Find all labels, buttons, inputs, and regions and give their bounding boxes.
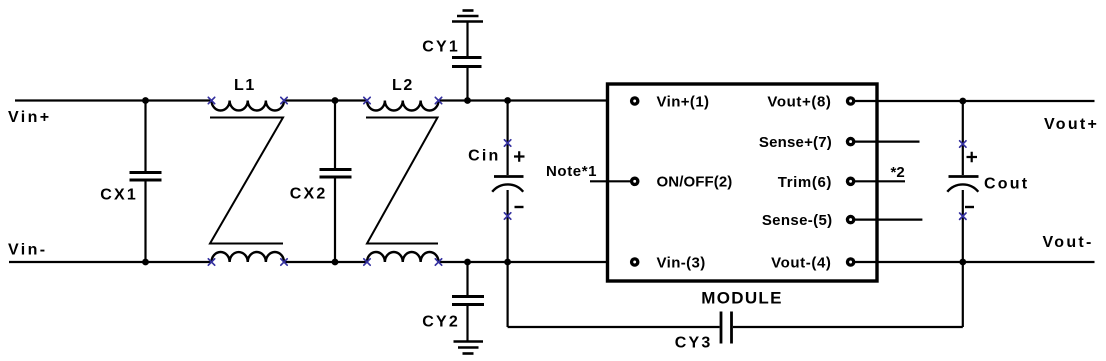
wire CY3 left leg [507,262,509,327]
wire top rail between L1 and L2 [284,99,367,101]
capacitor Cin (polarized) [492,101,523,263]
node L1 top-right x [281,97,287,103]
pin Vin-(3) circle [630,257,640,267]
node L1 bottom-left x [208,259,214,265]
inductor L2 bottom winding [367,252,439,262]
Cout minus sign [965,206,974,208]
pin Sense-(5) circle [846,215,856,225]
svg-text:CX1: CX1 [100,187,138,204]
svg-text:L2: L2 [392,77,414,94]
node Cin-bottom junction [504,259,511,266]
svg-text:Vout+: Vout+ [1044,116,1099,133]
pin ON/OFF(2) circle [630,177,640,187]
node CX2-bottom junction [332,259,339,266]
node L1 bottom-right x [281,259,287,265]
svg-text:Cout: Cout [984,176,1029,193]
Cin minus sign [515,206,524,208]
svg-text:Cin: Cin [468,148,500,165]
wire bottom rail from L2 to module [439,261,608,263]
svg-text:CY3: CY3 [675,335,713,352]
node CX2-top junction [332,97,339,104]
svg-text:L1: L1 [234,77,256,94]
node L2 bottom-right x [435,259,441,265]
ground above CY1 [452,11,483,22]
Cout plus sign [967,152,978,163]
svg-text:Vin-(3): Vin-(3) [657,255,706,272]
capacitor CX1 [130,101,162,263]
pin Vout+(8) circle [846,96,856,106]
node CX1-bottom junction [142,259,149,266]
svg-text:Sense-(5): Sense-(5) [762,212,833,229]
svg-text:Vin+: Vin+ [8,109,52,126]
module box U1 [608,84,878,281]
node Cout-top junction [959,98,966,105]
inductor L2 top winding [367,101,439,111]
node Cout lower x [960,213,966,219]
node Cout-bottom junction [959,259,966,266]
node Cin upper x [504,140,510,146]
inductor L1 top winding [212,101,284,111]
wire Note*1 stub to ON/OFF(2) [590,180,631,182]
wire bottom rail between L1 and L2 [284,261,367,263]
node L1 top-left x [208,97,214,103]
node CY2 junction [464,259,471,266]
svg-text:Note*1: Note*1 [546,163,597,180]
pin Vout-(4) circle [846,257,856,267]
capacitor CY1 [452,22,482,101]
Cin plus sign [514,151,525,162]
node Cin-top junction [504,97,511,104]
node CX1-top junction [142,97,149,104]
wire Vout- rail [851,261,1095,263]
capacitor CY3 [721,312,732,344]
svg-text:ON/OFF(2): ON/OFF(2) [657,174,733,191]
svg-text:*2: *2 [891,164,905,181]
svg-text:CY2: CY2 [422,314,460,331]
wire Trim stub [851,180,905,182]
wire CY3 bottom left run [508,326,720,328]
svg-text:Vin+(1): Vin+(1) [657,94,710,111]
capacitor CX2 [320,101,352,263]
wire CY3 right leg [962,262,964,327]
svg-text:CY1: CY1 [422,39,460,56]
node L2 bottom-left x [364,259,370,265]
L2 coupling Z bar [366,118,438,244]
pin Trim(6) circle [846,177,856,187]
node L2 top-left x [364,97,370,103]
inductor L1 bottom winding [212,252,284,262]
svg-text:MODULE: MODULE [701,289,782,308]
svg-text:Trim(6): Trim(6) [778,174,832,191]
node Cout upper x [960,141,966,147]
pin Sense+(7) circle [846,137,856,147]
wire Vout+ rail [851,100,1095,102]
wire top rail left segment [15,99,212,101]
node L2 top-right x [435,97,441,103]
wire bottom rail left segment [9,261,212,263]
ground below CY2 [454,342,484,354]
node CY1 junction [464,97,471,104]
svg-text:Vout+(8): Vout+(8) [767,94,831,111]
winding terminal x-marks [208,97,966,265]
wire Sense+ stub [851,141,920,143]
wire top rail from L2 to module [439,99,608,101]
L1 coupling Z bar [210,118,283,244]
capacitor Cout (polarized) [947,101,978,262]
pin Vin+(1) circle [630,96,640,106]
svg-text:Sense+(7): Sense+(7) [759,134,832,151]
wire Sense- stub [851,219,923,221]
svg-text:CX2: CX2 [290,186,328,203]
svg-text:Vout-(4): Vout-(4) [771,255,831,272]
svg-text:Vin-: Vin- [8,242,48,259]
wire CY3 bottom right run [733,326,963,328]
svg-text:Vout-: Vout- [1043,234,1094,251]
node Cin lower x [504,213,510,219]
capacitor CY2 [452,262,484,342]
